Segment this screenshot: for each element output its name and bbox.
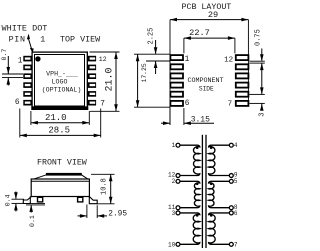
pin 11 terminal (left) — [176, 206, 180, 210]
front view body — [31, 179, 89, 197]
dimension 10.8 (front height) — [91, 174, 115, 204]
pad 6 (left, pcb) — [170, 101, 183, 106]
white dot marker — [35, 56, 40, 61]
svg-text:3: 3 — [172, 210, 176, 217]
pad 4 (left, pcb) — [170, 83, 183, 88]
pin 4 terminal (right) — [229, 143, 233, 147]
dimension 3 (pad pitch) — [249, 87, 266, 116]
package body inner — [35, 55, 85, 107]
svg-text:2: 2 — [172, 178, 176, 185]
pad 12 (right, pcb) — [236, 55, 249, 60]
svg-text:10: 10 — [168, 242, 176, 249]
svg-text:0.1: 0.1 — [29, 215, 36, 227]
pin 8 (right, top view) — [88, 91, 97, 97]
dimension 3.15 (pad width) — [161, 108, 214, 125]
svg-text:22.7: 22.7 — [189, 28, 210, 38]
pad 3 (left, pcb) — [170, 73, 183, 78]
pin 4 (left, top view) — [23, 82, 32, 88]
transformer T2 secondary winding (pins 5-8) — [209, 181, 230, 207]
pin 5 (left, top view) — [23, 91, 32, 97]
transformer T3 primary polarity dot — [196, 214, 199, 217]
svg-text:FRONT VIEW: FRONT VIEW — [37, 158, 87, 167]
svg-text:PCB LAYOUT: PCB LAYOUT — [182, 3, 232, 12]
pad 11 (right, pcb) — [236, 64, 249, 69]
svg-text:10.8: 10.8 — [100, 178, 108, 195]
svg-text:12: 12 — [99, 56, 107, 63]
dimension 17.25 (pcb pad column height) — [134, 54, 170, 107]
svg-text:0.75: 0.75 — [255, 29, 263, 46]
transformer T3 secondary polarity dot — [210, 214, 213, 217]
transformer T2 primary polarity dot — [196, 183, 199, 186]
front view left shoulder — [35, 175, 47, 179]
front view right lead — [89, 197, 97, 204]
svg-text:SIDE: SIDE — [199, 86, 214, 93]
label PIN 1 — [9, 35, 46, 45]
svg-text:6: 6 — [15, 99, 20, 107]
pad 5 (left, pcb) — [170, 92, 183, 97]
pin 5 terminal (right) — [229, 179, 233, 183]
transformer T1 primary winding (pins 1-12) — [180, 145, 200, 175]
svg-text:2.25: 2.25 — [147, 28, 155, 45]
svg-text:LOGO: LOGO — [52, 78, 68, 85]
svg-text:WHITE DOT: WHITE DOT — [2, 24, 48, 34]
dimension 0.1 (standoff) — [26, 204, 45, 227]
transformer T3 secondary winding (pins 6-7) — [209, 213, 230, 244]
front view left standoff — [38, 197, 43, 202]
svg-text:0.7: 0.7 — [1, 49, 8, 61]
svg-text:17.25: 17.25 — [141, 63, 148, 82]
pin 8 terminal (right) — [229, 206, 233, 210]
svg-text:12: 12 — [224, 57, 233, 65]
dimension 21.0 (right vertical) — [90, 52, 120, 111]
svg-text:5: 5 — [234, 178, 238, 185]
pad 2 (left, pcb) — [170, 64, 183, 69]
package body outer — [32, 52, 87, 109]
svg-text:7: 7 — [100, 101, 105, 109]
svg-text:28.5: 28.5 — [48, 126, 70, 136]
front view right standoff — [78, 197, 83, 202]
svg-text:6: 6 — [185, 100, 190, 108]
transformer T1 secondary polarity dot — [210, 146, 213, 149]
pad 8 (right, pcb) — [236, 92, 249, 97]
svg-text:0.4: 0.4 — [4, 194, 11, 206]
dimension 2.25 (pad height) — [146, 28, 170, 74]
transformer T1 secondary winding (pins 4-9) — [209, 145, 230, 175]
transformer T2 primary winding (pins 2-11) — [180, 181, 200, 207]
svg-text:COMPONENT: COMPONENT — [187, 77, 223, 85]
dimension 22.7 (pcb inner span) — [184, 28, 235, 53]
dimension 29 (pcb overall width) — [170, 10, 248, 125]
svg-text:VPH_-___: VPH_-___ — [46, 70, 78, 77]
front view top plate — [46, 173, 82, 176]
svg-text:6: 6 — [234, 210, 238, 217]
pin 10 terminal (left) — [176, 242, 180, 246]
svg-text:21.0: 21.0 — [105, 67, 116, 91]
dimension 28.5 (bottom) — [20, 109, 101, 138]
pin 7 (right, top view) — [88, 100, 97, 106]
pin 3 (left, top view) — [23, 73, 32, 79]
part marking text — [42, 70, 82, 93]
pin 6 (left, top view) — [23, 100, 32, 106]
svg-text:1: 1 — [18, 58, 23, 66]
front view right shoulder — [81, 175, 87, 179]
pin 1 terminal (left) — [176, 143, 180, 147]
pin 1 (left, top view) — [23, 56, 32, 62]
pad 7 (right, pcb) — [236, 101, 249, 106]
svg-text:1: 1 — [172, 142, 176, 149]
pad 1 (left, pcb) — [170, 55, 183, 60]
svg-text:1: 1 — [40, 35, 45, 45]
svg-text:7: 7 — [228, 101, 233, 109]
transformer core — [202, 135, 206, 248]
label COMPONENT SIDE — [187, 77, 223, 93]
svg-text:29: 29 — [208, 10, 218, 20]
pad 9 (right, pcb) — [236, 83, 249, 88]
pin 12 terminal (left) — [176, 174, 180, 178]
pad 10 (right, pcb) — [236, 73, 249, 78]
dimension 21.0 (bottom) — [31, 111, 89, 125]
transformer T1 primary polarity dot — [196, 146, 199, 149]
pin 2 (left, top view) — [23, 65, 32, 71]
leader arrow to white dot — [27, 34, 34, 53]
svg-text:1: 1 — [185, 56, 190, 64]
dimension 0.7 (pin width) — [1, 49, 23, 86]
svg-text:TOP VIEW: TOP VIEW — [60, 35, 101, 45]
pin 6 terminal (right) — [229, 211, 233, 215]
pin 2 terminal (left) — [176, 179, 180, 183]
package bottom band — [31, 106, 88, 110]
pin 12 (right, top view) — [88, 56, 97, 62]
transformer T2 secondary polarity dot — [210, 183, 213, 186]
pin 7 terminal (right) — [229, 242, 233, 246]
svg-text:(OPTIONAL): (OPTIONAL) — [42, 87, 82, 94]
svg-text:21.0: 21.0 — [45, 113, 67, 123]
dimension 0.4 (lead thickness) — [4, 192, 24, 212]
pin 9 (right, top view) — [88, 82, 97, 88]
front view left lead — [23, 197, 31, 204]
svg-text:PIN: PIN — [9, 35, 26, 45]
dimension 2.95 (lead foot) — [78, 205, 128, 219]
transformer T3 primary winding (pins 3-10) — [180, 213, 200, 244]
svg-text:2.95: 2.95 — [108, 211, 127, 219]
front view body top line — [31, 180, 89, 182]
dimension 0.75 (pad gap) — [249, 29, 264, 87]
pin 10 (right, top view) — [88, 73, 97, 79]
svg-text:4: 4 — [234, 142, 238, 149]
svg-text:3: 3 — [259, 113, 266, 117]
pin 9 terminal (right) — [229, 174, 233, 178]
pin 3 terminal (left) — [176, 211, 180, 215]
svg-text:7: 7 — [234, 242, 238, 249]
svg-text:3.15: 3.15 — [191, 115, 210, 124]
pin 11 (right, top view) — [88, 65, 97, 71]
